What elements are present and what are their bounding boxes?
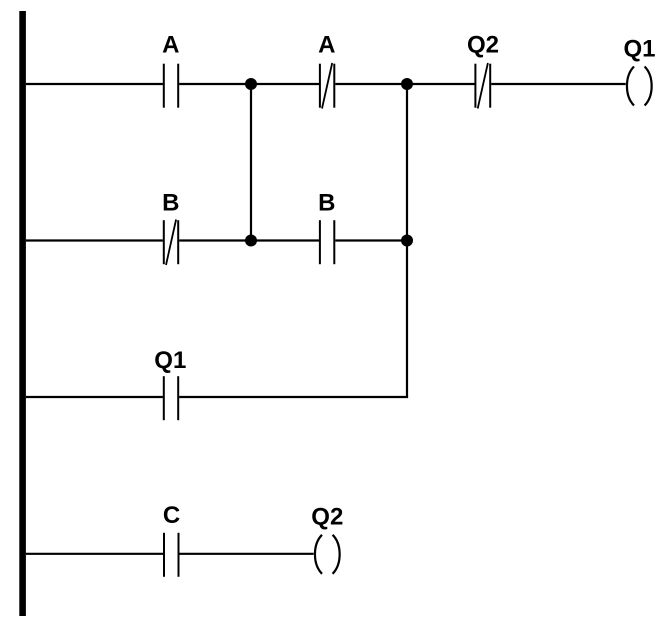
node N3 junction dot: [245, 235, 257, 247]
svg-text:B: B: [162, 190, 179, 217]
wire vertical node N1 to node N3: [250, 84, 252, 241]
wire node N2 to contact /Q2: [407, 83, 475, 85]
svg-text:Q2: Q2: [467, 32, 499, 59]
node N1 junction dot: [245, 78, 257, 90]
wire rung2 rail to contact /B: [26, 239, 163, 241]
node N2 junction dot: [401, 78, 413, 90]
svg-text:Q2: Q2: [311, 504, 343, 531]
wire contact Q1 to vertical branch: [179, 396, 408, 398]
contact C (normally open): [164, 533, 179, 577]
svg-text:A: A: [318, 32, 335, 59]
coil Q1: [627, 67, 652, 106]
wire rung3 rail to contact Q1: [26, 396, 163, 398]
wire contact /Q2 to coil Q1: [491, 83, 626, 85]
svg-text:A: A: [162, 32, 179, 59]
svg-text:B: B: [318, 190, 335, 217]
wire contact A to node N1: [179, 83, 251, 85]
wire contact /A to node N2: [335, 83, 407, 85]
svg-text:C: C: [163, 502, 180, 529]
contact A (normally closed): [320, 63, 334, 109]
svg-text:Q1: Q1: [623, 36, 655, 63]
contact Q1 (normally open): [164, 376, 178, 420]
contact A (normally open): [164, 64, 178, 108]
wire contact C to coil Q2: [180, 553, 314, 555]
coil Q2: [315, 535, 340, 574]
wire node N3 to contact B: [251, 239, 319, 241]
wire rung1 rail to contact A: [26, 83, 163, 85]
wire contact /B to node N3: [179, 239, 251, 241]
wire node N1 to contact /A: [251, 83, 319, 85]
wire vertical node N2 to rung3 corner: [406, 84, 408, 397]
wire contact B to node N4: [335, 239, 407, 241]
svg-text:Q1: Q1: [154, 347, 186, 374]
node N4 junction dot: [401, 235, 413, 247]
wire rung4 rail to contact C: [26, 553, 163, 555]
contact B (normally closed): [164, 220, 178, 266]
contact Q2 (normally closed): [475, 63, 490, 109]
contact B (normally open): [320, 220, 334, 264]
left power rail: [19, 11, 26, 616]
